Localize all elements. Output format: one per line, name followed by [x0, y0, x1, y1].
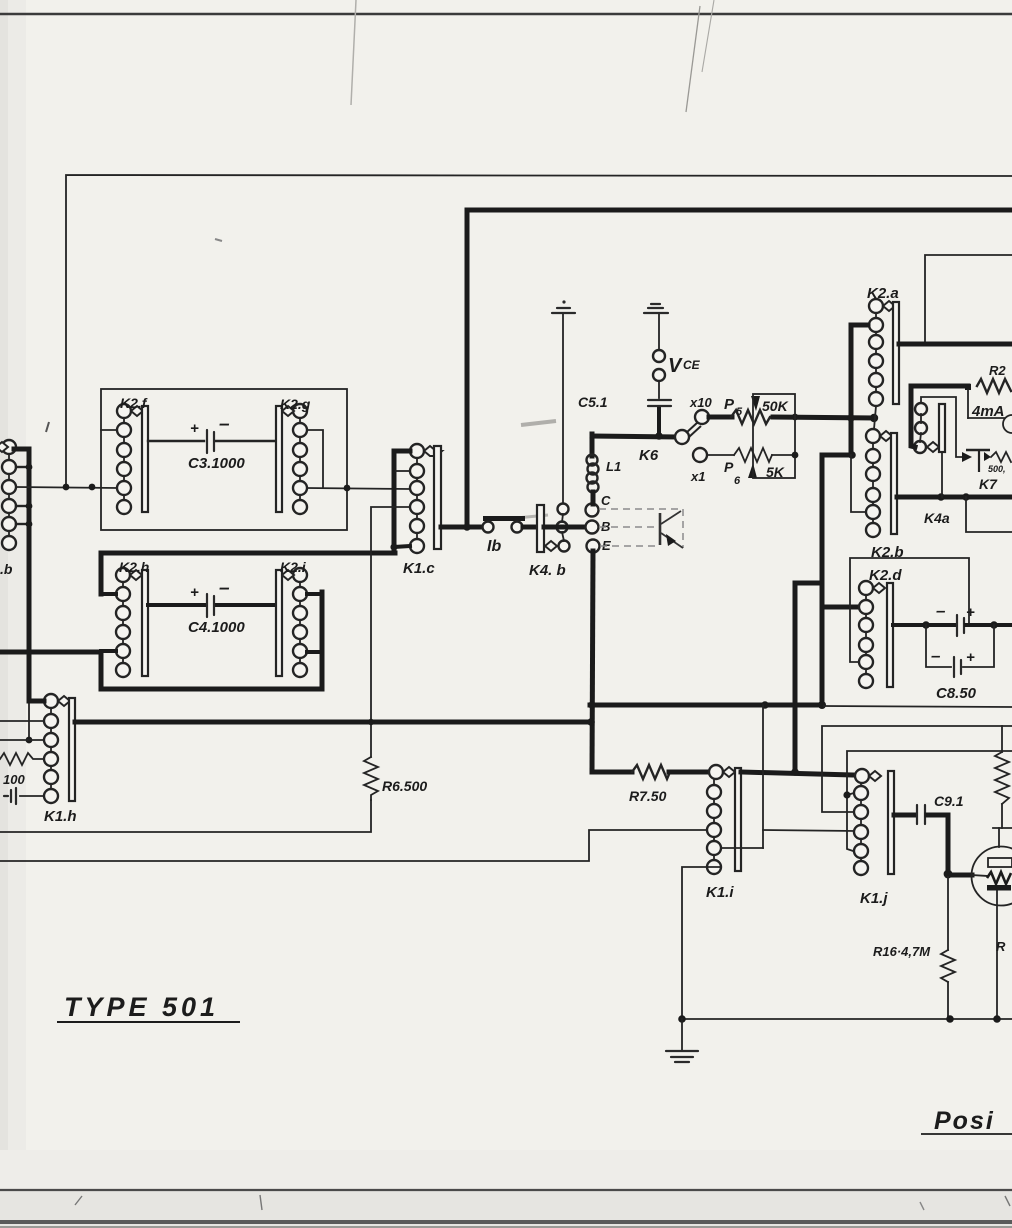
- outer thin box bottom right: [822, 726, 1012, 812]
- wire Ib to K4.b: [523, 525, 539, 530]
- caption Posi (partial): [921, 1107, 1012, 1135]
- svg-text:K1.j: K1.j: [860, 890, 888, 907]
- svg-text:K6: K6: [639, 447, 659, 464]
- svg-text:–: –: [936, 601, 946, 620]
- long wire lower left to K1.i row3: [0, 830, 707, 861]
- thick wire R7 row: [592, 770, 632, 775]
- svg-text:x1: x1: [690, 469, 705, 484]
- capacitor C8.50 (lower, parallel): [926, 625, 994, 702]
- transistor K7: [962, 450, 1011, 492]
- thick wire y705: [590, 703, 822, 708]
- svg-text:5: 5: [736, 406, 743, 418]
- svg-text:TYPE 501: TYPE 501: [64, 992, 219, 1022]
- wire x763 drop from y705: [762, 705, 764, 848]
- ground (over K4.b): [552, 300, 575, 313]
- wire K1.h row1 link: [29, 699, 44, 704]
- inner thin box bottom right: [847, 751, 1012, 851]
- wire: thin drop to K1.h row3: [28, 703, 30, 740]
- top page border: [0, 13, 1012, 16]
- svg-text:K1.h: K1.h: [44, 808, 77, 825]
- wire K1.c row4 down to R6: [371, 507, 410, 757]
- svg-text:C9.1: C9.1: [934, 793, 964, 809]
- stub K1.c row6: [394, 546, 410, 547]
- thick top bus wire: [467, 210, 1012, 526]
- switch K1.i: [706, 765, 741, 901]
- wire P node to K2.b row5: [851, 455, 866, 512]
- resistor R2: [977, 379, 1011, 393]
- thick wire K2.b bar to right (K4a row): [897, 495, 1012, 500]
- switch K2.i: [276, 559, 307, 677]
- svg-text:K4. b: K4. b: [529, 562, 566, 579]
- ground rail bottom: [682, 1018, 1012, 1020]
- transistor socket (dashed): [599, 509, 683, 548]
- wire K1.c row2 stub: [396, 470, 410, 472]
- transistor symbol: [660, 511, 683, 548]
- svg-text:R7.50: R7.50: [629, 788, 667, 804]
- bottom page border lines: [0, 1191, 1012, 1228]
- wire K2.h row2 stub: [101, 592, 116, 596]
- svg-text:500,: 500,: [988, 464, 1006, 474]
- svg-text:50K: 50K: [762, 398, 789, 414]
- svg-text:R16·4,7M: R16·4,7M: [873, 944, 931, 959]
- ground symbol bottom: [666, 1019, 698, 1062]
- svg-text:K7: K7: [979, 476, 998, 492]
- svg-text:6: 6: [734, 475, 741, 487]
- switch K2.b: [866, 429, 904, 561]
- svg-text:C8.50: C8.50: [936, 685, 977, 702]
- node dots left bus: [26, 464, 33, 471]
- resistor R6.500: [364, 757, 427, 800]
- capacitor C5.1: [578, 381, 671, 434]
- thick wire K2.a bar to right edge: [899, 342, 1012, 347]
- wire K2.g row2 loop to row5: [307, 430, 323, 488]
- wire ground to K4.b top: [562, 313, 564, 503]
- svg-text:+: +: [966, 649, 975, 666]
- resistor 100 on K1.h row4: [0, 753, 44, 765]
- title TYPE 501: [57, 992, 240, 1022]
- capacitor C4.1000: [148, 578, 276, 636]
- ground (over VCE): [644, 304, 668, 313]
- svg-text:K2.d: K2.d: [869, 567, 902, 584]
- thick E net: drop from E, bottom bus: [592, 551, 593, 772]
- wire: K?.b row5 stub: [16, 523, 29, 525]
- switch K1.j: [854, 769, 894, 907]
- switch K?.b (left edge, partial): [0, 440, 16, 577]
- thick wire C9 to tube grid: [927, 815, 972, 875]
- svg-text:K2.i: K2.i: [280, 559, 307, 575]
- wire K4.a top contact to K7: [921, 397, 963, 457]
- resistor R17 (anode, partial): [993, 726, 1012, 954]
- svg-text:K2.a: K2.a: [867, 285, 899, 302]
- svg-text:100: 100: [3, 772, 25, 787]
- svg-text:R: R: [996, 939, 1006, 954]
- switch K2.g: [276, 396, 311, 514]
- switch K2.h: [116, 559, 149, 677]
- node B: [586, 521, 599, 534]
- wire K4.a bar down to K4a row: [941, 452, 943, 497]
- thick wire K4.b to node B: [544, 525, 586, 530]
- wire K1.i row5 to drop: [721, 847, 763, 849]
- svg-text:–: –: [219, 414, 230, 435]
- thick jog to R7 drop: [795, 583, 822, 772]
- thick wire K1.i bar to K1.j: [741, 772, 855, 775]
- wire K2.i row5 stub: [307, 650, 322, 654]
- svg-text:+: +: [190, 584, 199, 601]
- svg-text:K2.f: K2.f: [120, 395, 148, 411]
- svg-text:Ib: Ib: [487, 538, 501, 555]
- svg-text:+: +: [966, 604, 975, 621]
- wire K1.i row6 down to ground: [682, 867, 721, 1019]
- node C: [586, 504, 599, 517]
- svg-text:C5.1: C5.1: [578, 394, 608, 410]
- thick branch to K2.d row2: [822, 605, 859, 610]
- switch K2.a: [867, 285, 899, 406]
- svg-text:P: P: [724, 396, 735, 413]
- thin box around K2.d: [850, 558, 969, 662]
- switch K4.b: [529, 504, 570, 580]
- capacitor C9.1: [894, 793, 964, 824]
- svg-text:–: –: [931, 646, 941, 665]
- wire K1.j row2 stub: [847, 793, 854, 795]
- capacitor C8.50 (upper): [893, 601, 1012, 636]
- wire: K?.b row3 across to K2.f row5: [16, 487, 117, 488]
- box around P5/P6: [753, 394, 795, 478]
- thick wire K1.h bar to center bus: [75, 720, 592, 725]
- wire K2.h row5 stub: [101, 649, 116, 653]
- svg-text:K2.g: K2.g: [280, 396, 311, 412]
- outer thin enclosure wire: [66, 175, 1012, 487]
- switch K2.f: [117, 395, 148, 514]
- meter 4mA: [968, 390, 1012, 433]
- switch K2.d: [859, 567, 902, 688]
- svg-text:+: +: [190, 420, 199, 437]
- svg-text:P: P: [724, 459, 734, 475]
- thick wire K2.h-box top to K1.c row1: [394, 451, 410, 553]
- thin box top right: [925, 255, 1012, 343]
- scan creases top: [351, 0, 356, 105]
- svg-text:K4a: K4a: [924, 510, 950, 526]
- svg-text:Posi: Posi: [934, 1107, 995, 1135]
- capacitor C3.1000: [148, 414, 276, 472]
- wire: K?.b row1 to thick vertical bus: [14, 449, 29, 701]
- wire K2.a row6 to K2.b row1: [874, 406, 876, 429]
- svg-text:CE: CE: [683, 358, 701, 372]
- resistor R16 4,7M: [873, 877, 955, 1019]
- svg-text:L1: L1: [606, 459, 621, 474]
- potentiometer P6 5K: [707, 448, 795, 487]
- thick box around K2.h / K2.i: [101, 553, 395, 594]
- svg-text:C3.1000: C3.1000: [188, 455, 245, 472]
- thick wire P5 to K2.a bus: [773, 417, 874, 418]
- thick link P bus down: [822, 455, 852, 705]
- svg-text:K2.h: K2.h: [119, 559, 149, 575]
- thick wire B row: [441, 525, 481, 530]
- small thin box right of K4a row: [966, 497, 1012, 532]
- svg-text:R2: R2: [989, 363, 1006, 378]
- wire K2.f row2 to box edge: [101, 429, 117, 431]
- wire drop corner to K1.j row4: [763, 830, 856, 831]
- svg-text:R6.500: R6.500: [382, 778, 427, 794]
- switch K1.h: [44, 694, 77, 825]
- wire K2.g row5 to K1.c row3: [307, 488, 410, 489]
- svg-text:C4.1000: C4.1000: [188, 619, 245, 636]
- node E: [587, 540, 600, 553]
- svg-text:x10: x10: [689, 395, 712, 410]
- inductor L1: [587, 434, 622, 504]
- svg-text:.b: .b: [0, 561, 13, 577]
- wire: K?.b row2 stub: [16, 466, 29, 468]
- thin wire y706 to right edge: [824, 706, 1012, 707]
- svg-text:–: –: [219, 578, 230, 599]
- svg-text:K1.c: K1.c: [403, 560, 435, 577]
- capacitor to ground on K1.h row6: [20, 795, 44, 797]
- thick wire L1 top to C5/K6 node: [592, 436, 676, 437]
- contact x10: [695, 410, 709, 424]
- tube V1: [972, 828, 1012, 1019]
- thick wire K2.a row2 down to P node: [851, 325, 868, 455]
- wire K1.h row2 to edge: [0, 720, 44, 722]
- svg-text:K1.i: K1.i: [706, 884, 734, 901]
- svg-text:C: C: [601, 493, 611, 508]
- contact Ib: [483, 516, 526, 555]
- svg-text:4mA: 4mA: [971, 403, 1005, 420]
- wire: K?.b row4 stub: [16, 505, 29, 507]
- switch K6: [639, 422, 701, 464]
- thick wire R2 feed and drop to K4.a wiper: [911, 386, 968, 447]
- contact x1: [693, 448, 707, 462]
- switch K1.c: [403, 444, 442, 577]
- wire K1.h row3 to edge: [0, 739, 44, 741]
- connector VCE: [653, 313, 701, 381]
- wire R6 bottom to left edge: [0, 800, 371, 832]
- potentiometer P5 50K: [709, 396, 789, 424]
- box around K2.f / K2.g: [101, 389, 347, 530]
- resistor R7.50: [629, 765, 670, 804]
- svg-text:V: V: [668, 355, 683, 377]
- wire K2.i row2 stub: [307, 592, 322, 596]
- switch K4.a: [914, 403, 945, 453]
